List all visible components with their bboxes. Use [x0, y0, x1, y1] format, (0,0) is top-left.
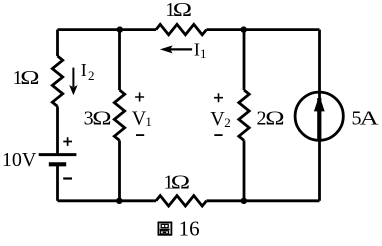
node A junction dot top-left — [117, 26, 123, 32]
svg-text:1: 1 — [145, 114, 152, 129]
battery minus sign — [63, 177, 72, 179]
wire middle branch bottom — [118, 140, 121, 200]
node C junction dot bottom-left — [116, 198, 122, 204]
svg-text:I: I — [194, 39, 200, 59]
wire top-left segment — [58, 28, 157, 31]
node D junction dot bottom-right — [241, 198, 247, 204]
resistor R-bottom 1ohm zigzag — [156, 196, 206, 206]
resistor R3 2ohm vertical zigzag — [239, 90, 249, 140]
resistor R2 3ohm vertical zigzag — [114, 90, 124, 140]
svg-text:I: I — [81, 60, 87, 80]
wire branch3 top — [243, 30, 246, 90]
resistor R-left 1ohm vertical zigzag — [52, 56, 62, 106]
wire left vertical bottom — [56, 164, 59, 200]
svg-text:10V: 10V — [2, 149, 37, 171]
voltage label V1 plus sign — [135, 93, 144, 102]
svg-text:Ω: Ω — [173, 0, 192, 21]
caption CJK glyph tu (figure) — [158, 222, 171, 234]
svg-text:Ω: Ω — [20, 67, 39, 89]
voltage label V1 minus sign — [136, 134, 144, 136]
current arrow I2 pointing down — [69, 68, 77, 96]
battery V-source 10V long plate — [39, 153, 77, 156]
battery plus sign — [63, 137, 72, 146]
svg-text:V: V — [210, 108, 225, 130]
svg-text:2: 2 — [88, 68, 95, 83]
voltage label V2 plus sign — [214, 93, 223, 102]
wire left vertical middle — [56, 106, 59, 154]
wire bottom-right segment — [207, 199, 320, 202]
wire top-right segment — [207, 28, 320, 31]
current arrow I1 pointing left — [160, 45, 192, 53]
wire left vertical top stub — [56, 30, 59, 56]
svg-text:A: A — [360, 107, 379, 129]
wire middle branch top — [118, 30, 121, 90]
svg-text:2: 2 — [224, 115, 231, 130]
svg-text:Ω: Ω — [92, 107, 111, 129]
current source arrow shaft — [317, 98, 321, 141]
svg-text:Ω: Ω — [265, 107, 284, 129]
svg-text:1: 1 — [200, 46, 207, 61]
resistor R-top 1ohm zigzag — [156, 24, 206, 34]
node B junction dot top-right — [241, 26, 247, 32]
wire bottom-left segment — [58, 199, 157, 202]
svg-text:16: 16 — [179, 217, 200, 241]
current source I-source 5A circle — [295, 92, 343, 140]
wire branch3 bottom — [243, 140, 246, 200]
wire right vertical — [318, 30, 321, 201]
battery V-source 10V short plate — [49, 162, 66, 166]
voltage label V2 minus sign — [214, 134, 222, 136]
current source arrowhead up — [314, 95, 325, 111]
svg-text:Ω: Ω — [171, 171, 190, 193]
